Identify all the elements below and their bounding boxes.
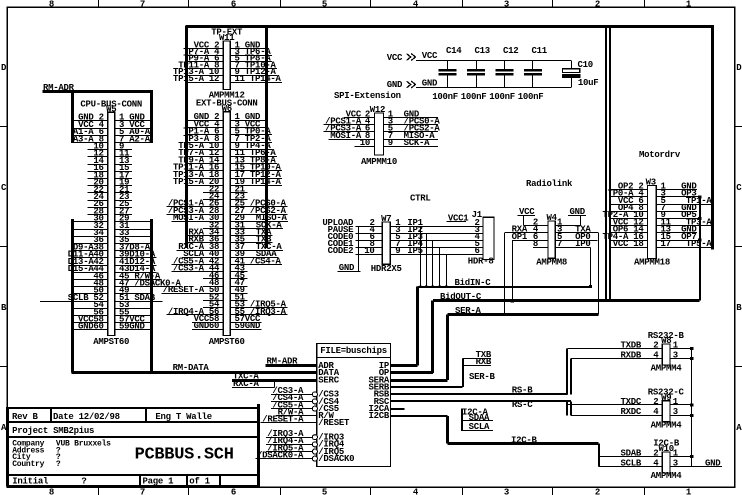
junction RXA/SER-A [503, 313, 506, 316]
W12 pin 8/7 [329, 131, 438, 141]
W5 pin 10/9 | [88, 142, 132, 152]
svg-text:100nF: 100nF [432, 92, 458, 102]
wire RSB / RS-B [391, 349, 571, 396]
W6 pin 18/17 TP13-A|TP12-A [173, 170, 282, 180]
W11 pin 10/9 TP13-A|TP12-A [173, 67, 277, 77]
inverter bubble /IRQ4-A [312, 442, 317, 447]
inverter bubble /IRQ3-A [312, 435, 317, 440]
signal labels UPLOAD PAUSE CODE0 CODE1 CODE2 [322, 218, 354, 256]
W6 pin 42/41 /CS5-A|/CS4-A [172, 256, 283, 266]
net /IRQ3-A [266, 429, 318, 440]
W6 pin 26/25 /PCS1-A|/PCS0-A [166, 199, 287, 209]
svg-text:OP1: OP1 [512, 232, 528, 242]
W12 pin 6/5 [324, 124, 441, 134]
W12 pin 4/3 [324, 117, 441, 127]
W5 pin 40/39 D11-A|D10-A [68, 250, 157, 260]
svg-text:10: 10 [360, 138, 370, 148]
svg-text:100nF: 100nF [489, 92, 515, 102]
W11 pin 12/11 TP15-A|TP14-A [173, 74, 282, 84]
W6 pin 58/57 VCC|VCC [192, 314, 262, 324]
connector W6 EXT-BUS-CONN [161, 98, 288, 346]
W5 pin 14/13 | [88, 156, 132, 166]
W5 pin 22/21 | [88, 185, 132, 195]
svg-text:/CS4-A: /CS4-A [250, 256, 282, 266]
power flag GND [387, 78, 438, 90]
wire VCC to W4 pin2 [523, 215, 525, 225]
W6 pin 10/9 TP5-A|TP4-A [178, 141, 272, 151]
net /CS5-A [271, 400, 318, 411]
svg-text:AMPST60: AMPST60 [93, 337, 129, 347]
W6 pin 8/7 TP3-A|TP2-A [183, 134, 272, 144]
connector W5 CPU-BUS-CONN [40, 100, 182, 347]
svg-text:Rev B: Rev B [12, 412, 39, 422]
svg-text:60: 60 [93, 322, 103, 332]
W6 pin 50/49 /RESET-A| [161, 285, 247, 295]
svg-text:VCC: VCC [387, 53, 403, 63]
W5 pin 42/41 D13-A|D12-A [68, 257, 157, 267]
W8 pin 2/1 TXDB [567, 340, 693, 350]
svg-text:2: 2 [653, 397, 658, 407]
W7 pin 10/9 IP5 [355, 246, 483, 256]
W3 pin 2/1 OP2|GND [610, 181, 697, 191]
svg-text:TP15-A: TP15-A [173, 74, 205, 84]
svg-text:CTRL: CTRL [410, 193, 431, 203]
title text company [12, 440, 111, 469]
wire CPU data bus right bar [150, 219, 153, 373]
svg-text:GND: GND [422, 78, 438, 88]
svg-text:D: D [736, 63, 742, 73]
W3 pin 14/13 OP6|GND [610, 225, 697, 235]
W5 pin 24/23 | [88, 192, 132, 202]
svg-text:1: 1 [686, 488, 692, 495]
W5 pin 36/35 | [73, 235, 152, 245]
W6 pin 32/31 |SCK-A [203, 220, 283, 230]
W6 pin 16/15 TP11-A|TP10-A [173, 163, 282, 173]
W10 pin 2/1 SDAB [599, 448, 694, 458]
svg-text:C11: C11 [532, 46, 548, 56]
W11 pin 6/5 TP9-A|TP8-A [183, 54, 272, 64]
W3 pin 10/9 TP2-A|OP5 [603, 210, 700, 220]
wire RM-DATA bus [71, 363, 316, 373]
svg-text:AMPMM8: AMPMM8 [536, 257, 567, 267]
svg-text:7: 7 [557, 239, 562, 249]
power flag VCC Radiolink [518, 207, 536, 226]
wire OP1 drop to BidOUT-C [512, 240, 514, 301]
W3 body [648, 186, 657, 259]
svg-text:VCC: VCC [422, 51, 438, 61]
svg-text:C12: C12 [503, 46, 518, 56]
title block row1 dividers [50, 408, 52, 422]
W3 pin 6/5 VCC|TP1-A [610, 196, 712, 206]
title block divider rows [7, 421, 259, 423]
W11 pin 4/3 TP7-A|TP6-A [183, 47, 272, 57]
W3 pin 4/3 TP0-A|OP3 [608, 189, 700, 199]
W6 pin 22/21 | [203, 184, 247, 194]
svg-text:1: 1 [686, 0, 692, 10]
wire TP bus right bar [265, 26, 268, 248]
W4 pin 2/1 | [523, 218, 580, 228]
W9 pin 2/1 TXDC [567, 397, 693, 407]
svg-text:6: 6 [231, 0, 236, 10]
svg-text:Radiolink: Radiolink [526, 179, 573, 189]
W5 pin 16/15 | [88, 163, 132, 173]
W5 pin 34/33 | [73, 228, 152, 238]
wire RXA drop to SER-A [504, 233, 506, 315]
wire CPU address bus right bar [150, 90, 153, 143]
svg-text:8: 8 [49, 0, 54, 10]
wire bus vertical B [609, 26, 611, 301]
W4 pin 4/3 RXA|TXA [505, 225, 599, 235]
inverter bubble /IRQ5-A [312, 449, 317, 454]
svg-text:/RESET-A: /RESET-A [262, 415, 304, 425]
W5 pin 4/3 VCC|VCC [73, 120, 152, 130]
svg-text:VCC: VCC [613, 239, 629, 249]
svg-text:AMPMM4: AMPMM4 [651, 364, 683, 374]
svg-text:3: 3 [673, 407, 678, 417]
W6 pin 36/35 RXB|TXB [187, 235, 273, 245]
capacitor C11 100nF [518, 46, 548, 102]
svg-text:9: 9 [395, 246, 400, 256]
wire IP / BidIN-C [391, 278, 591, 366]
svg-text:CODE2: CODE2 [328, 246, 354, 256]
W5 pin 58/57 VCC|VCC [73, 315, 152, 325]
svg-text:18: 18 [633, 239, 643, 249]
connector W12 SPI header [324, 105, 441, 167]
junction OP3 [698, 195, 701, 198]
svg-text:4: 4 [653, 407, 659, 417]
svg-text:VUB Bruxxels: VUB Bruxxels [56, 440, 111, 449]
svg-text:HDR2X5: HDR2X5 [371, 264, 402, 274]
svg-text:4: 4 [653, 350, 659, 360]
wire Motordrv OP return vertical [699, 197, 701, 301]
svg-text:11: 11 [235, 74, 246, 84]
net /IRQ4-A [266, 436, 318, 447]
W11 pin 2/1 VCC|GND [187, 40, 267, 50]
svg-text:AMPST60: AMPST60 [209, 337, 245, 347]
W5 pin 30/29 | [73, 214, 152, 224]
svg-text:Date 12/02/98: Date 12/02/98 [53, 412, 120, 422]
svg-text:TXDB: TXDB [621, 340, 642, 350]
svg-text:A2-A: A2-A [129, 134, 150, 144]
svg-text:GND: GND [245, 321, 261, 331]
wire RM-ADR to ADR [266, 356, 317, 366]
connector W4 Radiolink [505, 213, 599, 267]
svg-text:/RESET-A: /RESET-A [163, 285, 205, 295]
W5 pin 26/25 | [88, 199, 132, 209]
J1 body [483, 217, 494, 259]
inverter bubble /CS5-A [312, 406, 317, 411]
W6 pin 54/53 |/IRQ5-A [203, 300, 287, 310]
W6 pin 24/23 | [203, 192, 247, 202]
svg-text:TP15-A: TP15-A [173, 177, 205, 187]
svg-text:9: 9 [388, 138, 393, 148]
W5 pin 8/7 A3-A|A2-A [73, 134, 152, 144]
svg-text:HDR-8: HDR-8 [468, 257, 494, 267]
W12 pin 2/1 [344, 109, 438, 119]
inverter bubble /CS4-A [312, 399, 317, 404]
junction OP7 [698, 238, 701, 241]
W5 pin 60/59 GND|GND [73, 322, 152, 332]
wire CPU data bus left bar [71, 219, 74, 373]
W6 pin 56/55 /IRQ4-A|/IRQ3-A [166, 307, 287, 317]
wires CTRL outputs drop to BidIN-C [419, 226, 447, 287]
svg-text:C13: C13 [475, 46, 490, 56]
connector W9 RS232-C [567, 393, 693, 431]
svg-text:59: 59 [119, 322, 129, 332]
W12 body [375, 113, 384, 155]
svg-text:B: B [736, 303, 742, 313]
W5 body [108, 112, 115, 335]
svg-text:A: A [736, 423, 742, 433]
W7 pin 4/3 IP2 [355, 225, 483, 235]
W5 pin 54/53 | [73, 300, 152, 310]
W7 pin 6/5 IP3 [355, 232, 483, 242]
W3 pin 18/17 VCC|TP5-A [610, 239, 712, 249]
svg-text:4: 4 [413, 0, 419, 10]
W4 body [548, 221, 555, 258]
W6 pin 12/11 TP7-A|TP6-A [178, 148, 277, 158]
inverter bubble /CS3-A [312, 392, 317, 397]
wire TP bus top [185, 25, 714, 28]
W8 pin 4/3 RXDB [571, 350, 694, 360]
capacitor C10 10uF electrolytic [562, 60, 598, 88]
W6 pin 4/3 VCC|VCC [187, 119, 267, 129]
svg-text:B: B [1, 303, 7, 313]
W11 pin 8/7 TP11-A|TP10-A [178, 61, 277, 71]
net /CS4-A [271, 393, 318, 404]
svg-text:GND: GND [194, 321, 210, 331]
svg-text:I2CB: I2CB [369, 411, 390, 421]
svg-text:Motordrv: Motordrv [639, 150, 681, 160]
W5 pin 32/31 | [73, 221, 152, 231]
net label VCC1 [447, 213, 470, 223]
svg-text:RXDC: RXDC [621, 407, 642, 417]
svg-text:1: 1 [673, 397, 679, 407]
W12 pin 10/9 [355, 138, 439, 148]
W3 pin 16/15 TP4-A|OP7 [603, 232, 700, 242]
svg-text:D: D [1, 63, 7, 73]
svg-text:1: 1 [673, 448, 679, 458]
W7 pin 2/1 IP1 [355, 218, 483, 228]
title block [7, 404, 260, 487]
svg-text:12: 12 [209, 74, 219, 84]
svg-text:IP0: IP0 [575, 239, 590, 249]
svg-text:3: 3 [673, 350, 678, 360]
svg-text:TP5-A: TP5-A [686, 239, 713, 249]
W6 pin 14/13 TP9-A|TP8-A [178, 155, 277, 165]
wire I2CA stub [391, 407, 493, 432]
W10 body [662, 452, 670, 473]
svg-text:Page 1: Page 1 [143, 476, 175, 486]
svg-text:59: 59 [235, 321, 245, 331]
svg-text:3: 3 [504, 0, 509, 10]
svg-text:SER-B: SER-B [469, 372, 496, 382]
wire VCC rail [416, 60, 571, 62]
wire Motordrv TP bus vertical [711, 26, 714, 250]
junction IP0/BidIN-C [589, 285, 592, 288]
svg-text:6: 6 [231, 488, 236, 495]
connector J1 CTRL [447, 210, 495, 267]
svg-text:60: 60 [209, 321, 219, 331]
svg-text:2: 2 [595, 0, 600, 10]
svg-text:10: 10 [364, 246, 374, 256]
wire RM-ADR bus [43, 83, 152, 93]
svg-text:Project SMB2pius: Project SMB2pius [12, 426, 94, 436]
wire IP0 drop to BidIN-C [590, 247, 592, 286]
W6 pin 6/5 TP1-A|TP0-A [183, 127, 272, 137]
W3 pin 8/7 OP4|GND [610, 203, 697, 213]
svg-text:2: 2 [595, 488, 600, 495]
W5 pin 50/49 | [73, 286, 152, 296]
svg-text:GND: GND [387, 80, 403, 90]
power flag GND Radiolink [568, 207, 586, 226]
W6 pin 44/43 /CS3-A| [172, 264, 248, 274]
wire SERA / SER-A [391, 306, 599, 381]
W6 pin 34/33 RXA|TXA [187, 228, 273, 238]
W6 pin 38/37 RXC-A|TXC-A [177, 242, 283, 252]
svg-text:Initial: Initial [12, 476, 49, 486]
capacitor C12 100nF [489, 46, 518, 102]
capacitor C14 100nF [432, 46, 462, 102]
svg-text:GND: GND [78, 322, 94, 332]
svg-text:4: 4 [653, 458, 659, 468]
connector W11 TP-EXT [173, 28, 282, 101]
W5 pin 28/27 | [88, 206, 132, 216]
W6 pin 46/45 | [203, 271, 247, 281]
svg-text:7: 7 [140, 488, 145, 495]
svg-text:Country: Country [12, 460, 44, 469]
wire TXA drop to SER-A [598, 233, 600, 315]
W9 body [662, 401, 670, 422]
W6 pin 28/27 /PCS3-A|/PCS2-A [166, 206, 287, 216]
W6 pin 2/1 GND|GND [187, 112, 267, 122]
W6 body [223, 112, 230, 336]
svg-text:3: 3 [673, 458, 678, 468]
W7 pin 8/7 IP4 [355, 239, 483, 249]
svg-text:8: 8 [533, 239, 538, 249]
svg-text:TXDC: TXDC [621, 397, 642, 407]
svg-text:/RESET: /RESET [318, 418, 350, 428]
svg-text:1: 1 [673, 340, 679, 350]
svg-text:?: ? [56, 460, 61, 469]
W6 pin 48/47 | [203, 278, 247, 288]
svg-text:SERC: SERC [318, 375, 339, 385]
wire I2CB / I2C-B [391, 416, 599, 467]
W5 pin 2/1 GND|GND [73, 113, 152, 123]
W5 pin 52/51 SCLB|SDAB [40, 293, 162, 303]
svg-text:SPI-Extension: SPI-Extension [334, 91, 401, 101]
junction OP5 [698, 217, 701, 220]
W5 pin 48/47 |/DSACK0-A [73, 279, 182, 289]
wire GND rail [416, 87, 571, 89]
capacitor C13 100nF [461, 46, 490, 102]
power flag VCC [387, 51, 438, 63]
wire TXC-A to SERC [232, 372, 317, 382]
svg-text:7: 7 [140, 0, 145, 10]
svg-text:2: 2 [653, 340, 658, 350]
svg-text:10uF: 10uF [578, 78, 599, 88]
net /RESET-A [261, 415, 317, 425]
ground net GND CTRL [338, 263, 361, 273]
svg-text:SDAB: SDAB [621, 448, 642, 458]
net /IRQ5-A [266, 443, 318, 454]
wire W7 left pins common [358, 226, 360, 271]
title block outer border [7, 407, 260, 409]
W5 pin 38/37 D9-A|D8-A [73, 242, 152, 252]
connector W3 Motordrv [603, 178, 713, 268]
W5 pin 12/11 | [88, 149, 132, 159]
svg-text:PCBBUS.SCH: PCBBUS.SCH [135, 446, 234, 465]
svg-text:100nF: 100nF [461, 92, 487, 102]
W5 pin 46/45 |R/W-A [73, 271, 162, 281]
svg-text:Eng T Walle: Eng T Walle [155, 412, 211, 422]
W4 pin 6/5 OP1|OP0 [512, 232, 598, 242]
svg-text:3: 3 [504, 488, 509, 495]
svg-text:GND: GND [129, 322, 145, 332]
W6 pin 30/29 MOSI-A|MISO-A [172, 213, 289, 223]
svg-text:RXDB: RXDB [621, 350, 642, 360]
wire RSC / RS-C [391, 400, 571, 415]
svg-text:5: 5 [322, 0, 327, 10]
W10 pin 4/3 SCLB [599, 458, 722, 468]
svg-text:C: C [736, 183, 742, 193]
W6 pin 20/19 TP15-A|TP14-A [173, 177, 282, 187]
svg-text:FILE=buschips: FILE=buschips [320, 346, 387, 356]
W11 body [223, 41, 230, 90]
W6 pin 52/51 | [203, 292, 247, 302]
svg-text:5: 5 [322, 488, 327, 495]
W5 pin 6/5 A1-A|A0-A [73, 127, 152, 137]
W7 body [382, 222, 390, 264]
title block row4 dividers [139, 475, 141, 486]
svg-text:/DSACK0: /DSACK0 [318, 454, 354, 464]
net /DSACK0-A [256, 450, 318, 461]
W6 pin 40/39 SCLA|SDAA [182, 249, 278, 259]
W3 pin 12/11 VCC|TP3-A [610, 217, 712, 227]
wire CPU address bus left bar [71, 90, 74, 143]
svg-text:/CS3-A: /CS3-A [173, 264, 205, 274]
FILE box [317, 344, 391, 467]
IC U1 FILE=buschips [317, 344, 391, 467]
svg-text:?: ? [81, 476, 86, 486]
net /CS3-A [271, 386, 318, 397]
svg-text:MOSI-A: MOSI-A [173, 213, 205, 223]
svg-text:C14: C14 [446, 46, 462, 56]
wire RS232 common vertical [691, 349, 693, 467]
wire bus vertical A [605, 26, 607, 301]
ground net GND right [703, 458, 722, 468]
svg-text:100nF: 100nF [518, 92, 544, 102]
svg-text:A3-A: A3-A [73, 134, 94, 144]
W5 pin 44/43 D15-A|D14-A [68, 264, 157, 274]
svg-text:AMPMM4: AMPMM4 [651, 420, 683, 430]
junction OP1/BidOUT-C [511, 299, 514, 302]
W6 pin 60/59 GND|GND [192, 321, 262, 331]
svg-text:SCLB: SCLB [621, 458, 642, 468]
svg-text:SCK-A: SCK-A [404, 138, 431, 148]
wire SERB / SER-B [391, 350, 496, 387]
inverter bubble /DSACK0-A [312, 456, 317, 461]
svg-text:8: 8 [49, 488, 54, 495]
svg-text:2: 2 [653, 448, 658, 458]
W5 pin 20/19 | [88, 178, 132, 188]
wire TP bus left bar [185, 26, 188, 248]
wire GND to W4 pin1 [580, 215, 582, 225]
wire OP / BidOUT-C [391, 292, 700, 373]
svg-text:of 1: of 1 [189, 476, 210, 486]
W9 pin 4/3 RXDC [571, 407, 694, 417]
svg-text:MOSI-A: MOSI-A [330, 131, 362, 141]
